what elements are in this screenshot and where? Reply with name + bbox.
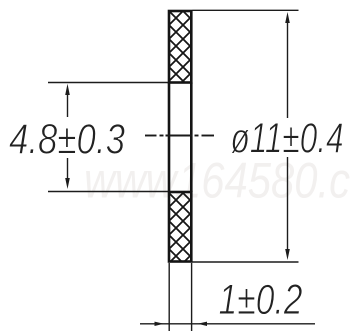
- svg-text:ø11±0.4: ø11±0.4: [231, 116, 344, 163]
- svg-text:1±0.2: 1±0.2: [219, 277, 303, 324]
- svg-text:4.8±0.3: 4.8±0.3: [9, 117, 125, 164]
